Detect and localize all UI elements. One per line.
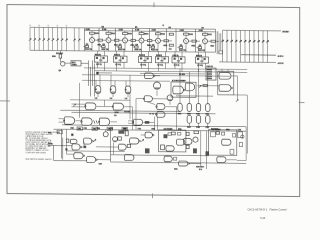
resistor R90 <box>219 51 223 54</box>
label G5 pin b <box>114 115 116 117</box>
resistor R81 <box>169 33 173 35</box>
wire upper rail 2 <box>85 30 216 31</box>
test point TP1 <box>77 127 83 130</box>
svg-text:+0.5 V: +0.5 V <box>278 63 285 65</box>
wire G6-G7 <box>76 120 82 122</box>
gate M2 <box>118 144 126 150</box>
wire G6 in <box>59 118 65 120</box>
svg-text:R33 1K: R33 1K <box>118 49 126 51</box>
wire G1 in <box>95 80 97 86</box>
label R82 <box>169 48 171 50</box>
label out2 <box>199 169 202 171</box>
connector pin P2-1 <box>222 30 224 62</box>
label R41 value <box>135 29 139 31</box>
wire vertical w3 <box>92 60 94 85</box>
wire G1 out <box>97 94 99 97</box>
wire M3 feed <box>67 150 125 153</box>
connector pin J1-9 <box>65 28 67 51</box>
label U5 bottom <box>174 64 179 66</box>
wire long bus G <box>72 112 216 113</box>
wire U6 Q out <box>198 63 200 72</box>
wire G10 stem <box>169 102 171 105</box>
svg-text:-20 (B): -20 (B) <box>282 31 289 33</box>
svg-text:R36 1K: R36 1K <box>179 50 187 52</box>
gate G15 <box>219 85 231 92</box>
gate M1 <box>130 138 139 144</box>
connector pin J1-2 <box>34 27 36 50</box>
connector pin P2-6 <box>244 31 246 63</box>
resistor R75 <box>194 131 199 134</box>
label Q7 <box>199 44 201 46</box>
wire box feeds <box>221 69 223 71</box>
connector pin P2-10 <box>262 31 264 63</box>
test point TP2 <box>92 127 98 130</box>
capacitor C13 <box>168 133 171 136</box>
label lower Z2 TIMER <box>164 128 172 130</box>
gate Z2B <box>166 146 174 151</box>
svg-text:FF4 R: FF4 R <box>156 54 162 57</box>
wire stage boundary <box>132 28 134 51</box>
label U5 top <box>173 54 179 56</box>
flip-flop U2 <box>114 56 128 62</box>
gate L4 <box>87 157 96 163</box>
label bus column A <box>217 31 219 54</box>
wire bottom left <box>54 159 88 161</box>
wire M1b in <box>141 134 145 136</box>
drawing border frame <box>7 5 300 197</box>
wire vertical x136 <box>135 99 137 130</box>
wire U5 Q out <box>174 63 176 69</box>
svg-text:CHC3-A0754-D-1: CHC3-A0754-D-1 <box>248 208 268 211</box>
resistor R21 <box>108 31 110 33</box>
svg-text:2.2K: 2.2K <box>135 30 140 32</box>
wire stage boundary <box>115 28 117 51</box>
svg-text:Q 1 Q: Q 1 Q <box>174 65 180 67</box>
flip-flop U5 <box>172 57 185 63</box>
wire G4 inputs <box>72 103 86 105</box>
arrow out <box>236 99 238 101</box>
gate M5 <box>179 161 188 166</box>
label R21 value <box>102 29 106 31</box>
resistor R13 <box>85 45 88 47</box>
label U4 bottom <box>157 64 162 66</box>
label M5 net <box>174 168 177 170</box>
svg-text:FF1 R: FF1 R <box>95 54 101 56</box>
connector pin J2-1 <box>73 28 75 51</box>
wire vertical x62 <box>62 138 64 160</box>
wire U3 Q out <box>141 63 143 69</box>
label U3 top <box>139 54 145 56</box>
wire grid drop 1 <box>179 69 181 104</box>
label G1 pin <box>95 97 98 99</box>
wire X1 out <box>154 75 160 77</box>
wire vertical w2 <box>89 67 91 97</box>
wire G5 out <box>124 106 132 108</box>
wire U5 reset <box>181 52 183 57</box>
arrow M1 out <box>141 139 143 141</box>
svg-text:R35 1K: R35 1K <box>151 49 159 51</box>
wire top rail <box>30 27 216 29</box>
svg-text:1 2: 1 2 <box>95 98 98 100</box>
wire G4-G5 <box>97 105 113 107</box>
svg-text:2.2K: 2.2K <box>86 29 91 31</box>
svg-text:4.7K: 4.7K <box>115 111 120 114</box>
label U6 top <box>196 55 202 57</box>
wire bus D <box>82 75 230 77</box>
resistor R61 <box>185 32 187 34</box>
resistor R55 <box>203 84 208 86</box>
label left bus <box>56 52 63 54</box>
label R51 value <box>152 29 156 31</box>
wire G11 out <box>166 106 177 108</box>
label from <box>48 132 51 134</box>
label Q6 <box>180 44 182 46</box>
label G5 pin a <box>115 112 119 114</box>
svg-text:Q 1 Q: Q 1 Q <box>197 65 203 67</box>
label above rail 1 <box>102 26 104 28</box>
wire vertical x130 <box>129 93 131 119</box>
one-shot box Z3 <box>209 130 237 156</box>
connector pin J1-6 <box>52 28 54 51</box>
resistor R64 <box>118 137 122 140</box>
svg-text:FF6 R: FF6 R <box>196 55 202 57</box>
gate Z4B <box>185 83 195 91</box>
resistor R63 <box>179 46 182 48</box>
label B3 <box>196 126 199 128</box>
wire right bus top rail <box>223 29 282 32</box>
gate M4 <box>164 156 172 161</box>
wire G15 in <box>198 85 220 87</box>
svg-text:-4.5 V: -4.5 V <box>278 55 284 58</box>
label B4 <box>206 127 209 129</box>
capacitor C12 <box>193 148 197 153</box>
svg-text:1 2: 1 2 <box>125 98 128 100</box>
label lower R93 <box>124 128 127 130</box>
connector pin J1-3 <box>38 27 40 50</box>
wire left drop <box>53 145 55 160</box>
connector pin P2-9 <box>258 31 260 63</box>
resistor R62 <box>118 130 124 133</box>
wire trig in <box>48 144 72 146</box>
wire U3 set <box>141 51 143 56</box>
label Q9 <box>59 70 61 72</box>
wire vertical x79 <box>79 83 81 118</box>
resistor R71 <box>204 32 206 34</box>
wire diagonal <box>147 102 156 105</box>
svg-text:4.1 MS TIMER: 4.1 MS TIMER <box>172 79 186 82</box>
wire L4 out <box>97 159 111 161</box>
label Q2 <box>102 43 104 45</box>
wire Q4 emitter <box>141 43 143 51</box>
resistor R63 <box>125 131 128 136</box>
gate M3 <box>124 154 134 160</box>
label grid out <box>211 128 217 130</box>
wire U1 reset <box>104 51 106 56</box>
wire U2 Qbar out <box>123 62 125 68</box>
flip-flop U3 <box>139 56 152 62</box>
wire Q7 emitter <box>204 44 206 52</box>
gate X1 <box>145 73 154 79</box>
wire G13 out <box>143 121 154 123</box>
resistor R81b <box>216 132 220 135</box>
gate G4 <box>85 103 96 110</box>
wire stage boundary <box>98 28 100 51</box>
label R43 value <box>135 49 142 51</box>
wire U1 Q out <box>96 62 98 68</box>
frame center tick top <box>153 2 155 7</box>
inverter A4 <box>206 104 210 112</box>
svg-text:T28 OUT: T28 OUT <box>196 166 205 168</box>
resistor R74 <box>178 132 181 135</box>
label Q1 <box>86 43 88 45</box>
wire vertical x206 <box>206 131 208 169</box>
svg-text:FF5 R: FF5 R <box>173 55 179 57</box>
connector pin J1-4 <box>43 27 45 50</box>
wire stage boundary <box>166 29 168 52</box>
wire L3 in <box>67 153 75 155</box>
svg-text:2.2K: 2.2K <box>199 30 204 32</box>
svg-text:Q 1 Q: Q 1 Q <box>96 64 102 66</box>
delay block Z1 <box>71 61 81 66</box>
label out1 <box>196 166 203 168</box>
label J3 <box>207 66 213 68</box>
wire vertical w4 <box>94 63 96 96</box>
wire stage boundary <box>149 29 151 52</box>
wire stage boundary <box>195 29 197 52</box>
wire bus C left stub <box>96 72 112 74</box>
wire bottom long <box>111 162 247 163</box>
frame center tick right <box>299 101 305 103</box>
label net -20V <box>282 31 289 33</box>
label R13 value <box>85 48 92 50</box>
gate R1 <box>217 157 226 163</box>
frame center tick bottom <box>152 193 154 198</box>
connector pin P2-2 <box>226 30 228 62</box>
resistor R23 <box>102 46 105 48</box>
connector pin P2-3 <box>231 30 233 62</box>
wire vertical w1 <box>87 60 89 86</box>
connector pin P2-11 <box>267 31 269 63</box>
connector pin P2-5 <box>240 30 242 62</box>
svg-text:P/O A7: P/O A7 <box>56 52 64 55</box>
wire stage boundary <box>215 29 217 52</box>
resistor R83 <box>239 143 242 147</box>
wire bus B <box>95 71 247 73</box>
gate B4 bell <box>154 82 161 89</box>
label U1 top <box>95 54 101 56</box>
capacitor C14 <box>222 132 225 135</box>
label Q5 <box>152 44 154 46</box>
resistor R53 <box>151 46 154 48</box>
wire U3 reset <box>148 52 150 57</box>
label lower R96 <box>226 129 229 131</box>
connector pin J1-5 <box>47 27 49 50</box>
svg-text:2.2K: 2.2K <box>180 30 185 32</box>
wire right bus mid rail <box>241 54 276 56</box>
diode CR5 <box>238 132 243 138</box>
transistor Q1 <box>91 34 93 37</box>
label U1 bottom <box>96 63 101 65</box>
gate L2 <box>84 138 92 144</box>
test point TP3 <box>107 127 113 130</box>
wire grid out rail <box>62 125 246 127</box>
label bus column B <box>219 33 221 50</box>
label R63 value <box>179 49 186 51</box>
wire B3 out <box>198 123 200 126</box>
wire vertical x154 <box>154 117 156 131</box>
wire grid drop 3 <box>198 69 200 104</box>
wire lower top rail <box>54 129 247 131</box>
inverter A3 <box>196 104 200 112</box>
wire U2 Q out <box>116 62 118 71</box>
resistor R33 <box>118 46 121 48</box>
wire Q2 emitter <box>108 43 110 51</box>
resistor R11 <box>91 31 93 33</box>
label lower R92 <box>97 127 100 129</box>
svg-text:COMPLETE REF DESIG: COMPLETE REF DESIG <box>25 152 46 154</box>
label A4 <box>206 113 209 115</box>
wire G13 in <box>128 120 133 122</box>
label Q4 <box>135 44 137 46</box>
inverter B4 <box>206 115 210 123</box>
label R23 value <box>102 48 109 50</box>
connector pin J1-7 <box>56 28 58 51</box>
arrow Z4 out <box>199 85 201 87</box>
gate G9 <box>144 96 152 102</box>
wire vertical x66 <box>66 129 68 139</box>
svg-text:FF2 R: FF2 R <box>114 54 120 56</box>
gate G1 <box>95 86 101 94</box>
connector pin P2-7 <box>249 31 251 63</box>
svg-text:R31 1K: R31 1K <box>85 49 93 51</box>
wire U4 Q out <box>158 63 160 72</box>
transistor Q9 <box>59 58 61 62</box>
gate L1 <box>72 144 80 150</box>
resistor R62 <box>189 40 193 42</box>
resistor R73 <box>198 47 201 49</box>
gate G13 <box>133 119 142 125</box>
gate M0 <box>113 137 118 142</box>
resistor R30 <box>59 51 61 55</box>
gate Z2A <box>177 139 185 145</box>
gate G11 <box>157 104 165 110</box>
wire down x237 <box>237 76 239 99</box>
connector pin J1-8 <box>61 28 63 51</box>
wire U4 reset <box>165 52 167 57</box>
transistor Q11 <box>193 137 198 142</box>
wire grid drop 2 <box>188 72 190 104</box>
resistor R84 <box>233 134 236 137</box>
gate G2 <box>110 86 116 94</box>
svg-text:Q 1 Q: Q 1 Q <box>115 64 121 66</box>
capacitor C11 <box>164 134 168 138</box>
transistor Q5 <box>157 35 159 38</box>
resistor R71 <box>161 145 165 150</box>
wire U6 set <box>198 52 200 57</box>
resistor R80 <box>211 132 216 137</box>
wire U6 Qbar out <box>205 63 207 69</box>
label G1 <box>96 89 97 91</box>
label G3 pin <box>125 98 128 100</box>
label U3 bottom <box>140 64 145 66</box>
wire G2 in <box>110 75 112 86</box>
label bottom wire <box>99 163 102 165</box>
wire G3 in <box>125 81 127 87</box>
wire G8 out <box>111 121 118 123</box>
wire B4 out <box>207 123 209 126</box>
svg-text:R37 1K: R37 1K <box>198 50 206 52</box>
wire long bus F <box>60 110 180 111</box>
svg-text:Flasher Control: Flasher Control <box>270 208 288 211</box>
gate Z3A <box>222 139 231 145</box>
transistor Q4 <box>141 35 143 38</box>
wire U5 Qbar out <box>181 63 183 72</box>
label lower R91 <box>71 127 74 129</box>
label A2 <box>187 113 190 115</box>
resistor R60 <box>66 139 69 142</box>
wire hline x70 <box>70 99 130 102</box>
label bus timing <box>179 73 184 75</box>
gate G10 bell <box>167 95 173 101</box>
wire G2 out <box>112 94 114 97</box>
label net +0.5V <box>278 62 284 64</box>
wire bus C <box>140 72 205 75</box>
junction node C <box>65 148 67 150</box>
svg-text:Z3 TIMER: Z3 TIMER <box>212 129 222 131</box>
capacitor C10 <box>145 148 150 153</box>
gate box outline <box>218 71 234 95</box>
flip-flop U1 <box>94 56 107 62</box>
wire grid feed rail <box>176 95 213 97</box>
svg-text:P/O J3: P/O J3 <box>207 66 214 68</box>
resistor R72 <box>208 40 212 42</box>
resistor R52 <box>161 40 165 42</box>
gate M1b <box>145 132 152 138</box>
label U2 bottom <box>115 63 120 65</box>
flip-flop U6 <box>196 57 209 63</box>
label lower C34 <box>238 129 241 131</box>
wire right bus bottom rail <box>219 61 276 64</box>
transistor Q12 <box>241 135 244 138</box>
gate Z4A <box>173 86 184 94</box>
label A3 <box>196 113 199 115</box>
wire vertical x110 <box>110 130 112 162</box>
arrow G4 input <box>73 104 75 106</box>
capacitor C6 marks <box>94 120 95 123</box>
label lower R95 <box>178 128 181 130</box>
connector pin P2-4 <box>235 30 237 62</box>
gate G6 <box>64 117 74 125</box>
resistor R82 <box>169 44 173 46</box>
wire U1 Qbar out <box>104 62 106 71</box>
wire U6 reset <box>205 52 207 57</box>
wire G14 out <box>231 75 238 77</box>
frame center tick left <box>0 100 10 102</box>
gate L0 <box>70 139 77 143</box>
wire Q1 emitter <box>91 43 93 51</box>
svg-text:Z2 TIMER: Z2 TIMER <box>164 129 174 131</box>
wire U3 Qbar out <box>148 63 150 72</box>
label lower R94 <box>152 128 155 130</box>
capacitor C15 <box>206 151 210 155</box>
junction node A <box>96 72 98 75</box>
wire U4 Qbar out <box>165 63 167 69</box>
wire Q6 emitter <box>185 44 187 52</box>
svg-text:R32 1K: R32 1K <box>102 49 110 51</box>
gate G8 <box>99 118 109 126</box>
one-shot box Z4 <box>171 82 196 97</box>
svg-text:SEE SERVICE SHEET 4 A0754: SEE SERVICE SHEET 4 A0754 <box>25 158 51 161</box>
